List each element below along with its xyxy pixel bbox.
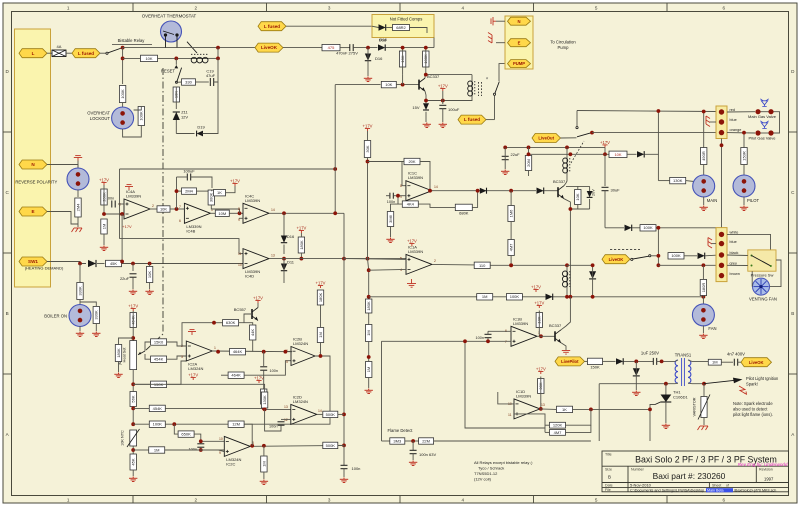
resistor 15K0 wiper xyxy=(151,339,167,345)
junction x722 bus xyxy=(720,143,724,147)
svg-text:464K: 464K xyxy=(233,349,243,354)
wire 180K heat top xyxy=(119,338,134,345)
svg-text:black: black xyxy=(730,251,739,255)
wire flame cap lead xyxy=(412,441,414,450)
junction 150K left xyxy=(131,382,135,386)
wire 100K row4 leads xyxy=(133,423,149,425)
wire NTC bottom xyxy=(132,446,134,454)
connector pin SW1 xyxy=(19,257,47,266)
wire 130K left xyxy=(658,180,669,182)
wire blue fan stub xyxy=(712,243,717,245)
wire 500K row2 right xyxy=(338,444,344,446)
wire IC1C cap left xyxy=(386,195,390,197)
yellow box Not Fitted Comps xyxy=(372,15,434,38)
svg-text:4n7 400V: 4n7 400V xyxy=(727,352,745,357)
svg-text:1: 1 xyxy=(67,497,70,502)
junction rail154 a xyxy=(527,152,531,156)
capacitor 30uF xyxy=(602,187,609,190)
svg-text:+17V: +17V xyxy=(534,300,544,305)
wire 2M4 to chassis xyxy=(77,217,79,227)
wire to relay coil xyxy=(123,57,140,59)
resistor 330 xyxy=(182,79,196,85)
frame row tick right 1 xyxy=(789,131,798,133)
wire 15K0 right xyxy=(167,342,187,346)
pilot valve dot left xyxy=(755,130,760,135)
ground 10K demand xyxy=(145,290,153,295)
svg-text:470nF 275V: 470nF 275V xyxy=(336,51,358,56)
svg-text:REVERSE POLARITY: REVERSE POLARITY xyxy=(15,180,57,185)
fan switch blade xyxy=(633,256,649,259)
diode spark clamp xyxy=(633,368,640,376)
svg-text:475: 475 xyxy=(328,45,335,50)
ground spark emitter xyxy=(562,351,570,355)
wire primary down xyxy=(598,384,600,441)
svg-text:File: File xyxy=(605,488,611,492)
svg-text:13: 13 xyxy=(271,253,275,257)
wire 454K3 right xyxy=(165,407,263,409)
wire 130K to row3 xyxy=(263,404,265,408)
wire BC557 base xyxy=(244,314,252,323)
svg-text:Baxi part #: 230260: Baxi part #: 230260 xyxy=(653,471,726,481)
svg-text:To Circulation: To Circulation xyxy=(550,40,576,45)
svg-text:68R2: 68R2 xyxy=(396,25,406,30)
op-amp IC2B xyxy=(286,337,321,366)
resistor 30K bus368 xyxy=(364,141,370,158)
svg-text:1M: 1M xyxy=(482,294,488,299)
selector contact top xyxy=(576,127,578,129)
wire liveok to 475 xyxy=(283,47,322,49)
wire L fused to switch xyxy=(100,52,106,54)
transistor BC337 gas xyxy=(558,186,564,199)
svg-text:454K: 454K xyxy=(154,357,164,362)
svg-text:10K: 10K xyxy=(385,82,392,87)
wire switch down xyxy=(494,95,496,119)
svg-text:PUMP: PUMP xyxy=(513,61,525,66)
svg-text:+17V: +17V xyxy=(316,280,326,285)
wire bus344 cap lead xyxy=(343,445,345,465)
capacitor C19 47uF xyxy=(210,78,213,86)
svg-text:C106D1: C106D1 xyxy=(673,395,688,400)
capacitor 100n IC2D xyxy=(278,422,285,425)
svg-text:4: 4 xyxy=(462,497,465,502)
junction 22uF top xyxy=(503,146,507,150)
junction 17V node xyxy=(441,99,445,103)
connector pin N xyxy=(19,160,47,169)
svg-text:464K: 464K xyxy=(231,373,241,378)
FAN indicator xyxy=(692,304,714,326)
svg-text:1M: 1M xyxy=(366,330,371,336)
svg-text:Size: Size xyxy=(605,468,612,472)
svg-text:5: 5 xyxy=(595,497,598,502)
pin red xyxy=(719,109,724,114)
ground 22uF IC1 xyxy=(501,170,509,175)
ground above IC2A xyxy=(188,330,196,335)
wire N pill to circle xyxy=(47,165,78,169)
junction live node xyxy=(121,46,125,50)
pin blue xyxy=(719,119,724,124)
wire emitter pump xyxy=(425,91,426,103)
resistor 130K gas xyxy=(670,177,686,183)
MAIN indicator xyxy=(693,175,715,197)
svg-text:LivePilot: LivePilot xyxy=(561,359,579,364)
resistor 100K lockout right xyxy=(138,107,144,126)
wire lockout res to circle xyxy=(122,103,124,108)
svg-text:100K: 100K xyxy=(153,422,163,427)
pin white xyxy=(719,232,724,237)
svg-text:VARISTOR: VARISTOR xyxy=(693,397,697,416)
wire bus368 gnd lead xyxy=(368,378,370,389)
frame column tick bottom 3 xyxy=(399,496,401,504)
resistor 464K IC2A out xyxy=(230,349,246,355)
thermostat switch blade xyxy=(187,42,197,53)
wire rail 154 xyxy=(529,153,610,155)
junction 4M7 bottom xyxy=(509,263,513,267)
wire 500K right xyxy=(338,413,344,415)
wire D16 bottom lead xyxy=(283,245,285,255)
ground 100uF pump xyxy=(439,123,447,128)
wire BC557 collector xyxy=(257,303,259,308)
svg-text:100K: 100K xyxy=(139,111,144,121)
resistor 4M7 chain xyxy=(508,240,514,256)
svg-text:VENTING FAN: VENTING FAN xyxy=(749,297,777,302)
svg-text:L: L xyxy=(32,51,35,56)
thyristor TH1 C106D1 xyxy=(655,395,671,405)
wire pullup mid xyxy=(320,305,322,327)
wire pill to switch xyxy=(486,119,495,121)
power +17V IC2B cap xyxy=(254,375,264,383)
wire 30K IC1D leads xyxy=(540,377,542,409)
junction IC4A minus 122 xyxy=(120,212,124,216)
ground PILOT xyxy=(740,206,748,211)
wire 44K bottom xyxy=(252,340,254,352)
svg-text:T7NS5D1-12: T7NS5D1-12 xyxy=(474,471,498,476)
svg-text:100K: 100K xyxy=(671,253,681,258)
wire IC1A plus xyxy=(344,258,406,261)
wire D19 line xyxy=(176,133,194,135)
wire Lfused to box xyxy=(286,25,372,27)
svg-text:100n: 100n xyxy=(352,466,361,471)
junction 490R main line xyxy=(702,110,706,114)
junction base node xyxy=(401,83,405,87)
wire IC4A minus branch down xyxy=(121,214,123,262)
diode D11 xyxy=(281,264,287,271)
resistor 100K lockout top xyxy=(119,86,125,103)
ground IC4A input xyxy=(100,246,108,251)
wire rail B xyxy=(570,208,589,210)
wire TH1 gate xyxy=(650,405,655,442)
svg-text:BC337: BC337 xyxy=(553,179,566,184)
wire 20M leads xyxy=(528,147,530,155)
wire bus x335 top xyxy=(334,85,336,214)
svg-text:LM339N: LM339N xyxy=(126,194,141,199)
svg-text:3: 3 xyxy=(328,5,331,10)
wire 1M6 to 4M7 xyxy=(510,222,512,240)
svg-text:brown: brown xyxy=(730,272,740,276)
wire orange to pilot valve xyxy=(727,132,755,134)
pin black xyxy=(719,252,724,257)
junction IC1B plus 465 xyxy=(463,339,467,343)
wire 150R to PILOT xyxy=(743,165,745,176)
wire 454K right xyxy=(167,356,187,359)
junction 454K3 left xyxy=(131,407,135,411)
svg-text:6: 6 xyxy=(723,497,726,502)
wire IC1D out xyxy=(540,408,556,411)
svg-text:Heat Set: Heat Set xyxy=(123,347,127,363)
wire 150K right xyxy=(167,361,187,384)
wire 1M6 top xyxy=(510,191,512,206)
junction IC4C in xyxy=(238,211,242,215)
junction 4K4 plus xyxy=(396,194,400,198)
svg-text:6: 6 xyxy=(179,219,181,223)
wire black row xyxy=(651,255,660,257)
svg-text:180K: 180K xyxy=(366,301,371,311)
wire IC2D cap bottom xyxy=(265,409,281,431)
resistor 150R xyxy=(741,148,747,165)
wire rail154 to diode xyxy=(627,153,637,155)
power +17V IC1B xyxy=(534,300,544,308)
svg-text:100K: 100K xyxy=(643,225,653,230)
resistor 630K xyxy=(223,320,239,326)
junction rail227 658 xyxy=(657,226,661,230)
relay coil pump xyxy=(468,81,475,96)
svg-text:330: 330 xyxy=(185,80,192,85)
wire 130K IC2D bottom xyxy=(265,408,291,409)
svg-text:TRANS1: TRANS1 xyxy=(675,353,692,358)
wire SW1 to diode xyxy=(47,262,86,264)
power +17V BC557 xyxy=(253,295,263,303)
junction bus335 at 213 xyxy=(333,211,337,215)
transistor BC557 xyxy=(252,308,258,321)
junction black row 658 xyxy=(657,254,661,258)
net label LivePilot xyxy=(555,357,585,366)
wire 475 to cap xyxy=(340,47,350,49)
junction bus297 flyback xyxy=(591,295,595,299)
junction 464K out right xyxy=(262,350,266,354)
junction grey 180R xyxy=(702,263,706,267)
svg-text:300K: 300K xyxy=(209,192,214,202)
svg-text:D16: D16 xyxy=(379,38,387,43)
wire IC4A out xyxy=(150,208,157,210)
overheat thermostat sensor xyxy=(161,21,182,42)
svg-text:PILOT: PILOT xyxy=(747,198,760,203)
capacitor 100n 63V xyxy=(410,450,417,453)
junction 630K left xyxy=(212,321,216,325)
wire IC4C plus xyxy=(239,217,243,219)
connector pin L xyxy=(19,49,47,58)
svg-text:LiveOK: LiveOK xyxy=(261,45,278,50)
wire box corner down xyxy=(433,38,435,48)
op-amp IC1C xyxy=(400,171,438,201)
svg-text:OVERHEAT: OVERHEAT xyxy=(87,111,110,116)
junction 1M vert top xyxy=(262,444,266,448)
varistor xyxy=(698,395,710,420)
file path highlight xyxy=(706,488,733,492)
reset switch blade xyxy=(177,68,182,83)
wire D16 top lead xyxy=(283,213,285,235)
wire 30uF down xyxy=(604,191,606,228)
reverse polarity indicator xyxy=(67,168,89,190)
wire 10K to IC4B xyxy=(170,208,184,210)
wire diode to base xyxy=(544,190,558,192)
svg-text:Main Gas Valve: Main Gas Valve xyxy=(748,114,777,119)
svg-text:22uF: 22uF xyxy=(511,152,521,157)
junction 477 out xyxy=(476,189,480,193)
wire 10K gas bottom xyxy=(577,205,579,210)
resistor 10K bistable xyxy=(141,55,158,61)
chassis ground reverse polarity xyxy=(72,228,83,232)
capacitor 100n bus bottom xyxy=(341,465,348,468)
wire spark emitter xyxy=(561,343,566,350)
frame column tick bottom 2 xyxy=(266,496,268,504)
pin grey xyxy=(719,263,724,268)
junction rail154 c xyxy=(603,152,607,156)
resistor 130K IC2B xyxy=(261,389,267,404)
svg-text:20K: 20K xyxy=(408,159,415,164)
junction grey row 658 xyxy=(657,263,661,267)
wire 4K4 right xyxy=(418,204,455,207)
svg-text:Tyco / Schrack: Tyco / Schrack xyxy=(478,466,504,471)
wire IC4A minus input xyxy=(104,213,124,215)
boiler on indicator xyxy=(69,305,91,327)
wire cap IC2C bottom xyxy=(200,447,202,450)
resistor 20K IC1C fb xyxy=(404,158,420,164)
svg-text:\BaxiSolo2+pf70 MKII.sch: \BaxiSolo2+pf70 MKII.sch xyxy=(734,488,776,492)
wire rail227 xyxy=(605,227,624,229)
op-amp IC4A xyxy=(119,189,154,219)
frame column tick top 2 xyxy=(266,3,268,12)
svg-text:LM339N: LM339N xyxy=(408,249,423,254)
wire 464K plus right xyxy=(244,361,291,376)
wire zener bottom xyxy=(175,120,177,134)
junction 100K top xyxy=(424,46,428,50)
resistor 56K heat xyxy=(130,392,136,407)
pin blue fan xyxy=(719,241,724,246)
wire 454K3 leads xyxy=(133,407,149,409)
wire 150K leads xyxy=(133,383,150,385)
svg-text:490R: 490R xyxy=(701,151,706,161)
diode D16 series xyxy=(378,44,385,50)
svg-text:2: 2 xyxy=(195,497,198,502)
svg-text:3: 3 xyxy=(181,355,183,359)
capacitor 22uF IC1 xyxy=(502,156,509,159)
resistor 10K reset xyxy=(173,87,179,102)
junction bus297 emitter xyxy=(569,295,573,299)
switch blade mains xyxy=(108,48,122,53)
wire pilot valve loop xyxy=(761,132,769,134)
diode rail227 xyxy=(625,225,632,231)
wire 330K right gnd xyxy=(95,324,97,332)
resistor 300K xyxy=(208,190,214,205)
title block xyxy=(602,451,789,492)
resistor 1M bus368 a xyxy=(366,325,372,342)
junction 1K node xyxy=(589,408,593,412)
svg-text:L fused: L fused xyxy=(464,117,480,122)
wire valve loop xyxy=(761,111,769,113)
wire 20M bottom xyxy=(528,171,530,177)
zener 20V xyxy=(587,191,593,197)
wire 17V to node xyxy=(442,91,444,104)
svg-text:IC2C: IC2C xyxy=(226,461,235,466)
wire reset res down xyxy=(175,87,177,102)
bistable relay coil xyxy=(191,54,208,63)
svg-text:180K: 180K xyxy=(116,348,121,358)
wire 3M6 top xyxy=(391,204,399,211)
pump relay dashes xyxy=(478,82,480,96)
resistor 10K demand xyxy=(146,267,152,283)
wire 300K joins xyxy=(210,190,213,191)
wire IC1C out xyxy=(432,190,536,192)
ground 3M6 xyxy=(386,238,394,243)
svg-text:1M: 1M xyxy=(261,461,266,467)
fan connector 5-pin xyxy=(716,228,727,282)
svg-text:+17V: +17V xyxy=(363,123,373,128)
svg-text:+17V: +17V xyxy=(99,177,109,182)
junction bus368 ic1a minus xyxy=(367,268,371,272)
junction pullup out xyxy=(319,354,323,358)
wire D16 leads xyxy=(367,48,369,76)
wire 130K right xyxy=(686,180,694,183)
junction IC1B out xyxy=(539,334,543,338)
wire diode to 10K tops xyxy=(386,47,435,49)
wire 3M6 bottom xyxy=(390,227,392,238)
svg-text:680K: 680K xyxy=(459,211,469,216)
svg-text:Number: Number xyxy=(631,468,645,472)
wire 17V link xyxy=(604,147,606,154)
capacitor 470nF 275V xyxy=(350,44,353,51)
svg-text:20M: 20M xyxy=(526,159,531,167)
resistor 150K spark xyxy=(588,358,603,364)
resistor 650K xyxy=(178,431,194,437)
wire pot bottom xyxy=(132,370,134,425)
resistor 10K psu xyxy=(399,51,405,67)
pilot valve dot right xyxy=(768,130,773,135)
svg-text:Not Fitted Comps: Not Fitted Comps xyxy=(390,17,423,22)
wire IC1A out xyxy=(432,263,474,266)
svg-text:B: B xyxy=(6,311,9,316)
svg-text:5: 5 xyxy=(400,257,402,261)
wire 15K0 left xyxy=(145,342,151,351)
svg-text:1K: 1K xyxy=(562,407,567,412)
svg-text:+17V: +17V xyxy=(230,178,240,183)
junction at relay right xyxy=(216,46,220,50)
chassis varistor xyxy=(698,426,709,430)
pin orange xyxy=(719,130,724,135)
wire bus x344 xyxy=(343,213,345,445)
junction cap 100n IC2C xyxy=(199,439,203,443)
junction demand node 2 xyxy=(148,262,152,266)
wire switch up to PUMP xyxy=(499,64,505,81)
wire 330 left xyxy=(178,81,182,83)
svg-text:4K4: 4K4 xyxy=(407,202,415,207)
wire IC1B cap top xyxy=(487,331,489,334)
junction bus368 161 xyxy=(366,160,370,164)
wire flame cap gnd xyxy=(412,454,414,460)
junction bus344 at 414 xyxy=(342,413,346,417)
svg-text:MAIN: MAIN xyxy=(707,198,717,203)
wire coil2 leads xyxy=(566,265,568,271)
wire C19 right up xyxy=(214,58,218,82)
wire lockout circle right xyxy=(134,107,142,111)
wire red to valve xyxy=(727,111,755,113)
wire 1K right xyxy=(226,186,236,193)
junction reset tap xyxy=(174,57,178,61)
resistor 10K pump base xyxy=(381,81,396,87)
wire 180K leads xyxy=(300,233,302,237)
svg-text:2: 2 xyxy=(152,204,154,208)
ground bus bottom xyxy=(340,478,348,483)
net label L fused top xyxy=(258,22,286,31)
junction 10K top xyxy=(401,46,405,50)
